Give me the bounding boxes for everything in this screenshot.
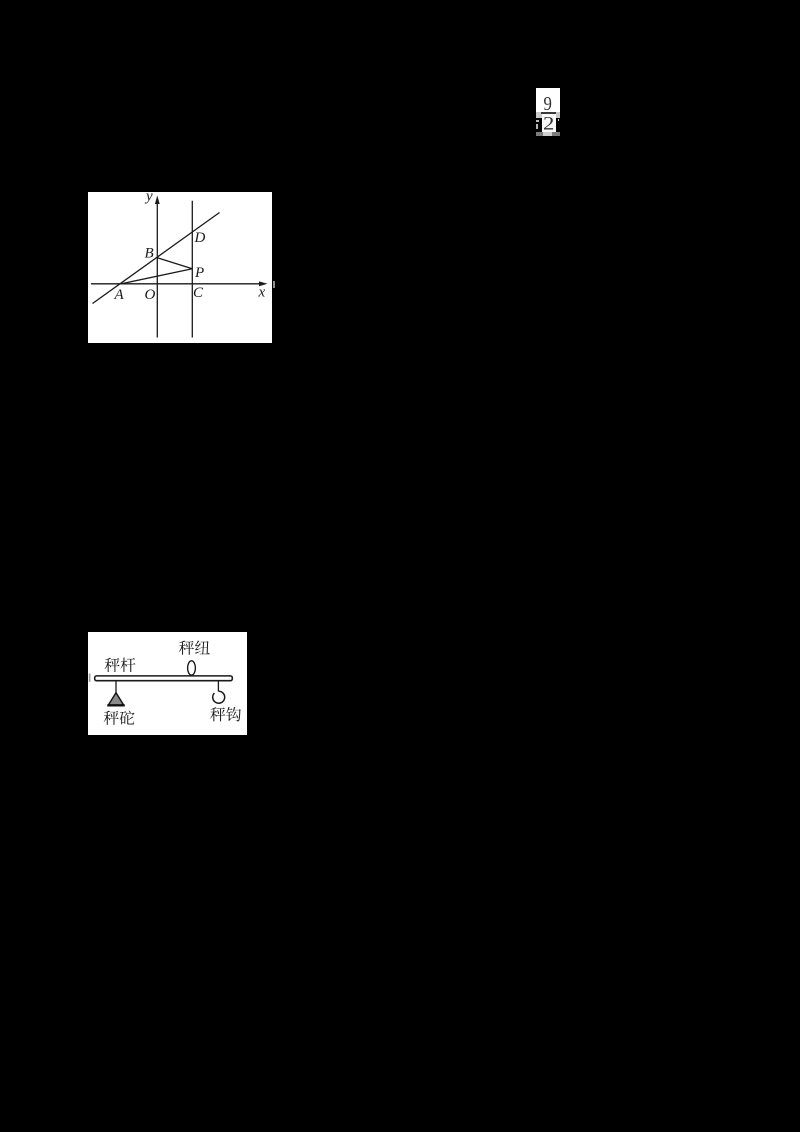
vertical line through C — [191, 201, 193, 338]
lifting-cord loop — [188, 661, 196, 675]
label 秤钩 — [210, 707, 241, 722]
beam rod — [95, 676, 233, 681]
fraction denominator white box — [542, 114, 556, 132]
svg-text:D: D — [194, 230, 206, 246]
hook curve — [213, 691, 225, 703]
speckle left of denominator — [536, 120, 538, 122]
weight triangle base — [107, 704, 124, 706]
x-axis arrowhead — [259, 281, 268, 286]
y-axis — [156, 200, 158, 338]
hook string — [217, 681, 219, 692]
coordinate-plane figure box — [88, 192, 272, 343]
speckle right of denominator — [558, 119, 560, 121]
svg-text:O: O — [145, 287, 156, 303]
y-axis arrowhead — [155, 196, 160, 205]
segment A to P — [121, 269, 192, 284]
gray tick at left edge — [89, 674, 91, 682]
fraction bottom gray band dark-right — [552, 132, 560, 136]
weight string — [115, 681, 117, 694]
fraction bottom gray band dark-left — [536, 132, 543, 136]
label 秤砣 — [104, 710, 135, 724]
fraction light-gray row around bar — [536, 112, 560, 118]
svg-text:B: B — [145, 246, 154, 262]
svg-text:y: y — [144, 192, 153, 205]
speckle left-lower of denominator — [536, 124, 538, 128]
numerator digit 9 — [544, 97, 552, 111]
label 秤杆 — [105, 658, 136, 672]
fraction 9/2 equation block — [536, 88, 560, 112]
gray tick right of coordinate figure — [273, 281, 275, 288]
segment B to P — [157, 258, 192, 269]
svg-text:x: x — [258, 284, 266, 300]
steelyard figure box — [88, 632, 247, 735]
line through A, B, D — [93, 213, 220, 304]
fraction bar — [541, 112, 556, 114]
svg-text:P: P — [194, 265, 204, 281]
denominator digit 2 — [544, 117, 554, 130]
fraction bottom gray band light-mid — [543, 132, 552, 136]
svg-text:A: A — [114, 287, 125, 303]
label 秤纽 — [179, 641, 210, 655]
x-axis — [91, 283, 263, 285]
weight triangle — [108, 693, 123, 705]
svg-text:C: C — [193, 285, 204, 301]
